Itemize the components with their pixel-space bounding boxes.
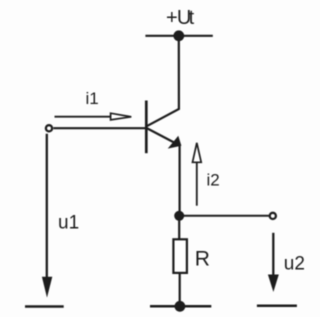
current arrow i2 line bbox=[196, 163, 198, 206]
transistor Q1 base bar bbox=[145, 101, 148, 154]
current arrow i1 line bbox=[55, 116, 112, 118]
current arrow i2 head (open) bbox=[193, 143, 202, 163]
svg-text:u2: u2 bbox=[284, 253, 305, 274]
svg-text:R: R bbox=[195, 248, 210, 271]
output node dot bbox=[174, 211, 184, 221]
wire resistor to ground bbox=[179, 273, 181, 306]
resistor R body bbox=[173, 239, 187, 273]
svg-text:t: t bbox=[189, 7, 195, 29]
svg-text:i1: i1 bbox=[86, 89, 99, 108]
voltage arrow u1 line bbox=[46, 134, 48, 280]
input terminal circle bbox=[46, 125, 52, 131]
transistor Q1 emitter arrowhead bbox=[168, 136, 182, 149]
svg-text:i2: i2 bbox=[207, 171, 220, 190]
transistor Q1 emitter line bbox=[147, 128, 177, 144]
svg-text:+U: +U bbox=[166, 7, 191, 29]
supply rail +Ut bbox=[145, 35, 212, 37]
svg-text:u1: u1 bbox=[58, 213, 79, 234]
voltage arrow u1 head bbox=[42, 277, 52, 298]
current arrow i1 head (open) bbox=[111, 113, 132, 120]
junction node on supply rail bbox=[173, 30, 184, 41]
wire node to output terminal bbox=[179, 215, 269, 217]
ground junction dot bbox=[175, 301, 186, 312]
base wire bbox=[53, 127, 146, 129]
wire node to resistor bbox=[178, 216, 180, 240]
ground middle rail bbox=[150, 305, 211, 308]
wire collector to rail bbox=[147, 36, 179, 127]
ground right bbox=[257, 305, 297, 308]
voltage arrow u2 head bbox=[268, 275, 279, 293]
emitter wire down bbox=[179, 146, 181, 216]
ground left bbox=[25, 305, 64, 308]
output terminal circle bbox=[270, 213, 276, 219]
voltage arrow u2 line bbox=[272, 233, 274, 277]
